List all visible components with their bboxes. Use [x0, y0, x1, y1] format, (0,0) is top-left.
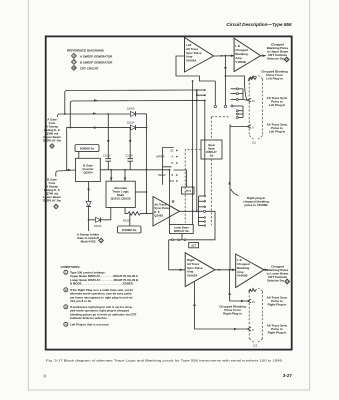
svg-text:Left Plug-in: Left Plug-in [269, 103, 286, 107]
svg-text:B: B [172, 173, 174, 177]
ALT contact row [172, 239, 174, 241]
svg-text:BEAM: BEAM [158, 174, 165, 177]
box Upper Beam DISPLAY Sw [201, 140, 222, 159]
svg-text:B MODE Sw: B MODE Sw [80, 148, 94, 151]
wire T1 out to T2 in [214, 55, 235, 57]
pin 16 of J11 [243, 99, 247, 102]
node: diode output vertical [146, 114, 148, 214]
svg-text:D1014: D1014 [127, 121, 135, 124]
arrow on wire A [93, 112, 96, 115]
svg-text:CONDITIONS:: CONDITIONS: [61, 265, 81, 269]
upper display switch contact dots [196, 89, 198, 91]
bus from inverter to switch [100, 169, 169, 171]
wire EF output to wafer pole row [180, 210, 204, 212]
svg-text:Sw: Sw [210, 155, 214, 158]
wire branch up from B path [70, 100, 197, 127]
wire T4 output [264, 269, 268, 271]
svg-text:Q1063: Q1063 [154, 214, 163, 218]
svg-text:Q1013, Q1023: Q1013, Q1023 [111, 197, 131, 201]
svg-text:V1060B: V1060B [235, 60, 245, 64]
dashed linkage [210, 117, 212, 140]
svg-text:Fig. 3-17 Block diagram of a: Fig. 3-17 Block diagram of alternate Tra… [46, 359, 283, 363]
svg-text:Right Plug-in: Right Plug-in [223, 311, 242, 315]
svg-text:Cathode Selector switches.: Cathode Selector switches. [70, 316, 108, 320]
op-amp U4 V1063B triangle [236, 254, 264, 288]
svg-text:DISPLAY Sw: DISPLAY Sw [174, 230, 189, 233]
svg-text:Q1004: Q1004 [83, 171, 92, 175]
svg-text:C1003: C1003 [126, 155, 134, 158]
box B MODE Sw lower [118, 226, 142, 233]
wafer lower contacts [199, 195, 205, 197]
box A MODE Sw [75, 145, 99, 152]
svg-text:D1010: D1010 [94, 225, 102, 228]
wire B gate vertical up [56, 170, 76, 177]
svg-text:Left Plug-in: Left Plug-in [269, 130, 286, 134]
wire junction down to pole [214, 81, 216, 105]
svg-text:pulse to V1063B: pulse to V1063B [244, 203, 268, 207]
svg-text:Selector Sw: Selector Sw [267, 279, 285, 283]
reference diagrams list [67, 49, 113, 71]
wire box3 right to vertical [135, 191, 146, 193]
svg-text:REFERENCE DIAGRAMS: REFERENCE DIAGRAMS [67, 49, 104, 53]
svg-text:DISPLAY Sw: DISPLAY Sw [43, 139, 62, 143]
box Alternate Trace Logic Multi [106, 181, 135, 207]
svg-text:3-27: 3-27 [283, 373, 293, 378]
wire A gate to top bus [58, 114, 129, 117]
svg-text:V1060A: V1060A [186, 59, 197, 63]
svg-text:Multi V423: Multi V423 [81, 239, 96, 243]
svg-text:Right Plug-in: Right Plug-in [268, 331, 287, 335]
svg-text:Selector Sw: Selector Sw [267, 57, 285, 61]
conditions block [61, 265, 139, 327]
op-amp U1 V1060A triangle [185, 38, 214, 73]
wafer upper: bracket and contacts [163, 148, 174, 185]
svg-text:Left Plug-in: Left Plug-in [266, 77, 283, 81]
connector pins column top [231, 88, 244, 119]
svg-text:J13, pin 8 or 16.: J13, pin 8 or 16. [70, 299, 92, 303]
svg-text:A: A [172, 154, 174, 158]
svg-text:®: ® [44, 375, 47, 379]
svg-text:A SWEEP GENERATOR: A SWEEP GENERATOR [80, 54, 113, 58]
wire row to T3 [169, 240, 186, 270]
wire mid verticals [196, 90, 198, 211]
svg-text:CRT CIRCUIT: CRT CIRCUIT [80, 66, 99, 70]
box Lower Beam DISPLAY Sw [170, 225, 194, 234]
svg-text:B41: B41 [170, 179, 175, 183]
svg-text:D1004: D1004 [127, 107, 135, 110]
svg-text:DISPLAY Sw: DISPLAY Sw [43, 199, 62, 203]
diagram border [46, 36, 292, 349]
wire vertical from inverter down with diode [88, 182, 90, 231]
pole 2 [224, 76, 226, 105]
svg-text:J13: J13 [253, 344, 258, 348]
wire branch up from A path to top wire [65, 90, 197, 114]
box B Gate Inverter Q1004 [76, 158, 101, 181]
wire T3 lower output down to J13 pin 8 [195, 282, 248, 329]
wire curvy from left plugin chopped blanking [245, 86, 248, 100]
diode down on left vertical [86, 202, 91, 207]
svg-text:UPPER: UPPER [156, 156, 165, 159]
op-amp U3 V1063A triangle [185, 253, 215, 287]
connector J11 dashed rails [248, 79, 250, 136]
svg-text:B1: B1 [171, 148, 175, 152]
pin 8 of J13 [247, 327, 251, 330]
svg-text:C1013: C1013 [103, 155, 111, 158]
wire box3 bottom to resistor [125, 208, 128, 214]
svg-text:J11: J11 [252, 141, 257, 145]
wire right vertical from J11 pin8 down to T4 input and J13 [230, 125, 247, 270]
node B-Gate input label [43, 178, 62, 209]
connector J13 dashed rails [248, 292, 250, 339]
wire T1 input feedback loop [176, 56, 215, 81]
svg-text:Right Plug-in: Right Plug-in [268, 303, 287, 307]
svg-text:ALT: ALT [191, 245, 196, 248]
op-amp U2 V1060B triangle [234, 38, 261, 71]
node callout right plug-in chopped blanking [231, 189, 239, 196]
svg-text:V1063B: V1063B [237, 274, 247, 278]
pin 16 of J13 [247, 299, 251, 302]
op-amp EF Q1063 triangle [153, 197, 180, 227]
svg-text:B SWEEP GENERATOR: B SWEEP GENERATOR [80, 60, 113, 64]
pin 8 of J11 [247, 125, 251, 128]
svg-text:Left Plug-in Unit is not used.: Left Plug-in Unit is not used. [70, 322, 109, 326]
wire T2 output to label [261, 55, 266, 57]
box +75V [182, 187, 195, 194]
svg-text:V1063A: V1063A [187, 273, 198, 277]
svg-text:Circuit Description—Type 556: Circuit Description—Type 556 [226, 22, 292, 27]
node A-Gate input label [43, 118, 62, 149]
wire T3 out to T4 in [215, 269, 236, 271]
svg-text:B MODE Sw: B MODE Sw [122, 229, 136, 232]
svg-text:B: B [172, 161, 174, 165]
svg-text:B MODE. . . . . . . . . . . .: B MODE. . . . . . . . . . . . . . . . . … [70, 282, 133, 286]
